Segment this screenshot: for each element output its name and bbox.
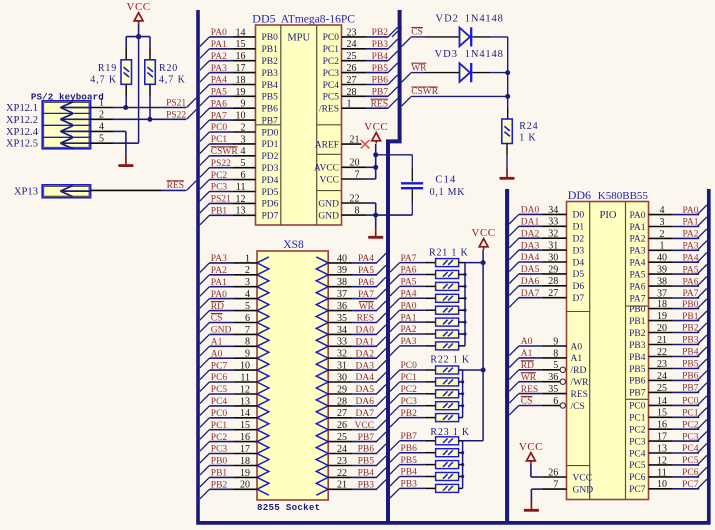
- svg-text:8255 Socket: 8255 Socket: [257, 502, 320, 513]
- svg-text:CS: CS: [211, 314, 223, 324]
- svg-text:A0: A0: [521, 337, 533, 347]
- svg-text:PS22: PS22: [211, 159, 231, 169]
- svg-text:4: 4: [245, 289, 250, 300]
- svg-text:PB6: PB6: [372, 76, 389, 86]
- svg-text:6: 6: [553, 396, 558, 407]
- svg-text:4,7 K: 4,7 K: [159, 75, 186, 86]
- svg-text:WR: WR: [521, 373, 537, 383]
- svg-text:40: 40: [657, 253, 667, 264]
- svg-text:PA3: PA3: [629, 247, 645, 257]
- svg-text:PB2: PB2: [401, 409, 418, 419]
- svg-text:7: 7: [355, 169, 360, 180]
- svg-text:36: 36: [337, 301, 347, 312]
- svg-text:6: 6: [241, 170, 246, 181]
- svg-text:GND: GND: [318, 211, 339, 221]
- svg-text:PB4: PB4: [629, 353, 646, 363]
- svg-text:GND: GND: [318, 199, 339, 209]
- svg-text:DA4: DA4: [521, 253, 540, 263]
- svg-text:PB7: PB7: [358, 433, 375, 443]
- svg-text:PC5: PC5: [211, 385, 228, 395]
- svg-text:PB7: PB7: [401, 432, 418, 442]
- svg-text:4: 4: [660, 205, 665, 216]
- svg-text:PA3: PA3: [211, 254, 227, 264]
- svg-text:PA7: PA7: [401, 254, 417, 264]
- svg-text:PD7: PD7: [262, 212, 279, 222]
- svg-text:13: 13: [657, 443, 667, 454]
- svg-text:24: 24: [347, 39, 357, 50]
- svg-text:33: 33: [548, 217, 558, 228]
- svg-text:PC3: PC3: [211, 445, 228, 455]
- svg-text:PB5: PB5: [358, 457, 375, 467]
- svg-text:16: 16: [240, 432, 250, 443]
- svg-text:PA7: PA7: [211, 111, 227, 121]
- svg-text:PA5: PA5: [211, 88, 227, 98]
- svg-text:1: 1: [660, 241, 665, 252]
- svg-text:VCC: VCC: [519, 441, 543, 453]
- svg-text:PA5: PA5: [358, 266, 374, 276]
- svg-text:XP12.5: XP12.5: [6, 139, 38, 150]
- svg-text:DA5: DA5: [521, 265, 540, 275]
- svg-text:PB4: PB4: [682, 348, 699, 358]
- svg-text:37: 37: [337, 289, 347, 300]
- svg-text:PA2: PA2: [682, 230, 698, 240]
- svg-text:PC2: PC2: [211, 171, 228, 181]
- svg-text:PA2: PA2: [211, 266, 227, 276]
- svg-text:PB2: PB2: [211, 481, 228, 491]
- svg-text:PB3: PB3: [372, 40, 389, 50]
- svg-text:PC0: PC0: [629, 402, 646, 412]
- svg-text:PC1: PC1: [629, 414, 646, 424]
- svg-text:/CS: /CS: [571, 402, 585, 412]
- svg-text:DA7: DA7: [521, 289, 540, 299]
- svg-text:PC0: PC0: [211, 409, 228, 419]
- svg-text:18: 18: [240, 456, 250, 467]
- svg-text:PB7: PB7: [682, 384, 699, 394]
- svg-text:25: 25: [337, 432, 347, 443]
- svg-text:DA4: DA4: [356, 373, 375, 383]
- svg-text:PC0: PC0: [682, 397, 699, 407]
- svg-text:27: 27: [548, 288, 558, 299]
- svg-text:27: 27: [337, 408, 347, 419]
- svg-text:PB4: PB4: [358, 469, 375, 479]
- svg-text:PA0: PA0: [629, 211, 645, 221]
- svg-text:26: 26: [337, 420, 347, 431]
- svg-text:PA6: PA6: [401, 266, 417, 276]
- svg-text:22: 22: [350, 193, 360, 204]
- svg-text:PB0: PB0: [682, 300, 699, 310]
- svg-text:27: 27: [347, 75, 357, 86]
- svg-text:C14: C14: [435, 174, 456, 185]
- svg-text:PA5: PA5: [682, 265, 698, 275]
- svg-text:30: 30: [548, 252, 558, 263]
- svg-text:26: 26: [548, 467, 558, 478]
- svg-text:16: 16: [657, 420, 667, 431]
- svg-text:PA5: PA5: [629, 270, 645, 280]
- svg-text:PC1: PC1: [682, 409, 699, 419]
- svg-text:8: 8: [355, 206, 360, 217]
- svg-text:D1: D1: [573, 223, 585, 233]
- svg-text:PC4: PC4: [629, 449, 646, 459]
- svg-text:35: 35: [337, 313, 347, 324]
- svg-text:PS22: PS22: [166, 111, 186, 121]
- svg-text:1N4148: 1N4148: [465, 49, 504, 60]
- svg-text:PC2: PC2: [682, 420, 699, 430]
- svg-text:PA1: PA1: [629, 223, 645, 233]
- svg-text:21: 21: [337, 480, 347, 491]
- svg-text:21: 21: [657, 335, 667, 346]
- svg-text:PC5: PC5: [323, 93, 340, 103]
- svg-text:28: 28: [337, 396, 347, 407]
- svg-text:PC3: PC3: [682, 432, 699, 442]
- svg-text:3: 3: [660, 217, 665, 228]
- svg-text:16: 16: [236, 51, 246, 62]
- svg-text:19: 19: [240, 468, 250, 479]
- svg-text:XP12.2: XP12.2: [6, 115, 38, 126]
- svg-text:VCC: VCC: [472, 227, 496, 239]
- svg-text:D3: D3: [573, 246, 585, 256]
- svg-text:/RD: /RD: [571, 366, 587, 376]
- svg-text:PS/2 keyboard: PS/2 keyboard: [31, 92, 104, 103]
- svg-text:D6: D6: [573, 282, 585, 292]
- svg-text:PB3: PB3: [358, 481, 375, 491]
- svg-text:PA7: PA7: [682, 289, 698, 299]
- svg-text:29: 29: [337, 384, 347, 395]
- svg-text:PB6: PB6: [358, 445, 375, 455]
- svg-text:PA4: PA4: [629, 259, 645, 269]
- svg-text:14: 14: [240, 408, 250, 419]
- svg-text:10: 10: [236, 111, 246, 122]
- svg-text:VCC: VCC: [573, 473, 593, 483]
- svg-text:DA0: DA0: [521, 206, 540, 216]
- svg-text:PC6: PC6: [629, 473, 646, 483]
- svg-text:D2: D2: [573, 235, 585, 245]
- svg-text:XS8: XS8: [283, 239, 304, 251]
- svg-text:23: 23: [347, 27, 357, 38]
- svg-text:20: 20: [657, 323, 667, 334]
- svg-text:10: 10: [240, 361, 250, 372]
- svg-text:XP12.4: XP12.4: [6, 127, 39, 138]
- svg-text:7: 7: [245, 325, 250, 336]
- svg-text:PD4: PD4: [262, 176, 279, 186]
- svg-text:32: 32: [548, 229, 558, 240]
- svg-text:PD3: PD3: [262, 164, 279, 174]
- svg-text:PA0: PA0: [211, 290, 227, 300]
- svg-text:RES: RES: [521, 385, 538, 395]
- svg-text:PB6: PB6: [682, 372, 699, 382]
- svg-text:PA3: PA3: [401, 337, 417, 347]
- svg-text:PC3: PC3: [323, 69, 340, 79]
- svg-text:PB4: PB4: [401, 468, 418, 478]
- svg-text:17: 17: [657, 432, 667, 443]
- svg-text:12: 12: [236, 194, 246, 205]
- svg-text:PD1: PD1: [262, 140, 279, 150]
- svg-text:PA1: PA1: [211, 40, 227, 50]
- svg-text:PA4: PA4: [682, 253, 698, 263]
- svg-text:39: 39: [337, 265, 347, 276]
- svg-text:4: 4: [241, 146, 246, 157]
- svg-text:A0: A0: [211, 349, 223, 359]
- svg-text:DA3: DA3: [521, 241, 540, 251]
- svg-text:5: 5: [553, 360, 558, 371]
- svg-text:PB1: PB1: [629, 317, 646, 327]
- svg-text:PB3: PB3: [401, 480, 418, 490]
- svg-text:22: 22: [657, 347, 667, 358]
- svg-text:RD: RD: [211, 302, 224, 312]
- svg-text:PB2: PB2: [682, 324, 699, 334]
- svg-text:12: 12: [240, 384, 250, 395]
- svg-text:8: 8: [553, 348, 558, 359]
- svg-text:DA3: DA3: [356, 361, 375, 371]
- svg-text:PD5: PD5: [262, 188, 279, 198]
- svg-text:PC2: PC2: [401, 385, 418, 395]
- svg-text:15: 15: [657, 408, 667, 419]
- svg-text:20: 20: [350, 158, 360, 169]
- svg-text:PD0: PD0: [262, 128, 279, 138]
- svg-text:25: 25: [347, 51, 357, 62]
- svg-text:34: 34: [337, 325, 347, 336]
- svg-text:PD6: PD6: [262, 200, 279, 210]
- svg-text:PC2: PC2: [211, 433, 228, 443]
- svg-text:PA3: PA3: [211, 64, 227, 74]
- svg-text:PB4: PB4: [262, 81, 279, 91]
- svg-text:D4: D4: [573, 258, 585, 268]
- svg-text:DA2: DA2: [521, 229, 540, 239]
- svg-text:PB2: PB2: [262, 57, 279, 67]
- svg-text:14: 14: [236, 27, 246, 38]
- svg-text:14: 14: [657, 396, 667, 407]
- svg-text:PB3: PB3: [629, 341, 646, 351]
- svg-text:PA4: PA4: [358, 254, 374, 264]
- svg-text:21: 21: [350, 135, 360, 146]
- svg-text:PS21: PS21: [211, 195, 231, 205]
- svg-text:PC0: PC0: [211, 123, 228, 133]
- svg-text:PB6: PB6: [629, 377, 646, 387]
- svg-text:R22 1 K: R22 1 K: [430, 355, 470, 366]
- svg-text:PB7: PB7: [629, 389, 646, 399]
- svg-text:9: 9: [553, 336, 558, 347]
- svg-text:DA1: DA1: [521, 218, 540, 228]
- svg-text:VCC: VCC: [127, 1, 151, 13]
- svg-text:26: 26: [347, 63, 357, 74]
- svg-text:31: 31: [548, 241, 558, 252]
- svg-text:PB5: PB5: [262, 93, 279, 103]
- svg-text:WR: WR: [359, 302, 375, 312]
- svg-text:24: 24: [337, 444, 347, 455]
- svg-text:XP13: XP13: [14, 187, 38, 198]
- svg-text:VCC: VCC: [354, 421, 374, 431]
- svg-text:9: 9: [245, 349, 250, 360]
- svg-text:PA7: PA7: [358, 290, 374, 300]
- svg-text:CSWR: CSWR: [411, 87, 439, 97]
- svg-text:PA2: PA2: [629, 235, 645, 245]
- svg-text:PB5: PB5: [682, 360, 699, 370]
- svg-text:35: 35: [548, 384, 558, 395]
- svg-text:RD: RD: [521, 361, 534, 371]
- svg-text:A0: A0: [571, 342, 583, 352]
- svg-text:33: 33: [337, 337, 347, 348]
- svg-text:CSWR: CSWR: [211, 147, 239, 157]
- svg-text:PB7: PB7: [262, 116, 279, 126]
- svg-text:PA6: PA6: [629, 282, 645, 292]
- svg-text:29: 29: [548, 264, 558, 275]
- svg-text:32: 32: [337, 349, 347, 360]
- svg-text:13: 13: [240, 396, 250, 407]
- svg-text:CS: CS: [521, 397, 533, 407]
- svg-text:PB4: PB4: [372, 52, 389, 62]
- svg-text:PC1: PC1: [211, 135, 228, 145]
- svg-text:34: 34: [548, 205, 558, 216]
- svg-text:DD5: DD5: [252, 12, 275, 26]
- svg-text:A1: A1: [211, 338, 223, 348]
- svg-text:PA2: PA2: [211, 52, 227, 62]
- svg-text:PC6: PC6: [682, 468, 699, 478]
- svg-text:18: 18: [236, 75, 246, 86]
- svg-text:38: 38: [657, 277, 667, 288]
- svg-text:PC3: PC3: [211, 183, 228, 193]
- svg-text:5: 5: [241, 158, 246, 169]
- svg-text:36: 36: [548, 372, 558, 383]
- svg-text:PB5: PB5: [372, 64, 389, 74]
- svg-text:28: 28: [347, 87, 357, 98]
- svg-text:38: 38: [337, 277, 347, 288]
- svg-text:PA0: PA0: [682, 206, 698, 216]
- svg-text:17: 17: [240, 444, 250, 455]
- svg-text:PA5: PA5: [401, 278, 417, 288]
- svg-text:R20: R20: [159, 63, 178, 74]
- svg-text:6: 6: [245, 313, 250, 324]
- svg-text:/RES: /RES: [319, 105, 339, 115]
- svg-text:PB1: PB1: [211, 469, 228, 479]
- svg-text:A1: A1: [521, 349, 533, 359]
- svg-text:1N4148: 1N4148: [465, 14, 504, 25]
- svg-text:39: 39: [657, 265, 667, 276]
- svg-text:PC1: PC1: [401, 373, 418, 383]
- svg-text:23: 23: [337, 456, 347, 467]
- svg-text:PC4: PC4: [682, 444, 699, 454]
- svg-text:17: 17: [236, 63, 246, 74]
- svg-text:RES: RES: [571, 390, 588, 400]
- svg-text:DA0: DA0: [356, 326, 375, 336]
- svg-text:PA0: PA0: [211, 28, 227, 38]
- svg-text:10: 10: [657, 479, 667, 490]
- svg-text:MPU: MPU: [287, 33, 310, 44]
- svg-text:PIO: PIO: [600, 210, 617, 221]
- svg-text:DD6: DD6: [568, 188, 591, 202]
- svg-text:RES: RES: [371, 99, 388, 109]
- svg-text:25: 25: [657, 383, 667, 394]
- svg-text:1: 1: [347, 99, 352, 110]
- svg-text:18: 18: [657, 299, 667, 310]
- svg-text:PA2: PA2: [401, 325, 417, 335]
- svg-text:1 K: 1 K: [519, 132, 536, 143]
- svg-text:PC7: PC7: [211, 361, 228, 371]
- svg-text:31: 31: [337, 361, 347, 372]
- svg-text:PB5: PB5: [401, 456, 418, 466]
- svg-text:30: 30: [337, 372, 347, 383]
- svg-text:11: 11: [240, 372, 250, 383]
- svg-text:PA7: PA7: [629, 294, 645, 304]
- svg-text:PC1: PC1: [323, 45, 340, 55]
- svg-text:ATmega8-16PC: ATmega8-16PC: [281, 14, 355, 26]
- svg-text:PC4: PC4: [211, 397, 228, 407]
- svg-text:PC0: PC0: [401, 361, 418, 371]
- svg-text:VD3: VD3: [435, 49, 458, 60]
- svg-text:15: 15: [240, 420, 250, 431]
- svg-text:4,7 K: 4,7 K: [90, 75, 117, 86]
- svg-text:PA6: PA6: [211, 99, 227, 109]
- svg-text:PA4: PA4: [401, 290, 417, 300]
- svg-text:XP12.1: XP12.1: [6, 103, 38, 114]
- svg-text:RES: RES: [167, 181, 184, 191]
- svg-text:PC4: PC4: [323, 81, 340, 91]
- svg-text:AVCC: AVCC: [314, 164, 339, 174]
- svg-text:PA1: PA1: [401, 313, 417, 323]
- svg-text:PD2: PD2: [262, 152, 279, 162]
- svg-text:PC6: PC6: [211, 373, 228, 383]
- svg-text:PC3: PC3: [629, 437, 646, 447]
- svg-text:3: 3: [241, 134, 246, 145]
- svg-text:15: 15: [236, 39, 246, 50]
- svg-text:GND: GND: [573, 485, 594, 495]
- svg-text:PB2: PB2: [629, 329, 646, 339]
- svg-text:DA6: DA6: [356, 397, 375, 407]
- svg-text:R24: R24: [519, 121, 538, 132]
- svg-text:PC7: PC7: [629, 485, 646, 495]
- svg-text:0,1 MK: 0,1 MK: [430, 187, 466, 198]
- svg-text:A1: A1: [571, 354, 583, 364]
- svg-text:PB6: PB6: [401, 444, 418, 454]
- svg-text:8: 8: [245, 337, 250, 348]
- svg-text:PA6: PA6: [358, 278, 374, 288]
- svg-text:PB7: PB7: [372, 88, 389, 98]
- svg-text:AREF: AREF: [315, 140, 339, 150]
- svg-text:DA5: DA5: [356, 385, 375, 395]
- svg-text:40: 40: [337, 253, 347, 264]
- svg-text:37: 37: [657, 288, 667, 299]
- svg-text:19: 19: [657, 311, 667, 322]
- svg-text:VCC: VCC: [364, 121, 388, 133]
- svg-text:DA1: DA1: [356, 338, 375, 348]
- svg-text:2: 2: [241, 122, 246, 133]
- svg-text:3: 3: [245, 277, 250, 288]
- svg-text:DA2: DA2: [356, 349, 375, 359]
- svg-text:1: 1: [245, 253, 250, 264]
- svg-text:PC3: PC3: [401, 397, 418, 407]
- svg-text:PA1: PA1: [211, 278, 227, 288]
- svg-text:7: 7: [553, 480, 558, 491]
- svg-text:PB3: PB3: [262, 69, 279, 79]
- svg-text:PA0: PA0: [401, 301, 417, 311]
- svg-text:PA4: PA4: [211, 76, 227, 86]
- svg-text:11: 11: [236, 182, 246, 193]
- svg-text:PC5: PC5: [682, 456, 699, 466]
- svg-text:PC2: PC2: [323, 57, 340, 67]
- svg-text:28: 28: [548, 276, 558, 287]
- svg-text:PB5: PB5: [629, 365, 646, 375]
- svg-text:PC0: PC0: [323, 33, 340, 43]
- svg-text:13: 13: [236, 206, 246, 217]
- svg-text:11: 11: [657, 467, 667, 478]
- svg-text:R21 1 K: R21 1 K: [429, 248, 469, 259]
- svg-text:20: 20: [240, 480, 250, 491]
- svg-text:DA6: DA6: [521, 277, 540, 287]
- svg-text:DA7: DA7: [356, 409, 375, 419]
- svg-text:D5: D5: [573, 270, 585, 280]
- svg-text:24: 24: [657, 371, 667, 382]
- svg-text:23: 23: [657, 359, 667, 370]
- svg-text:D0: D0: [573, 211, 585, 221]
- svg-text:VD2: VD2: [436, 14, 459, 25]
